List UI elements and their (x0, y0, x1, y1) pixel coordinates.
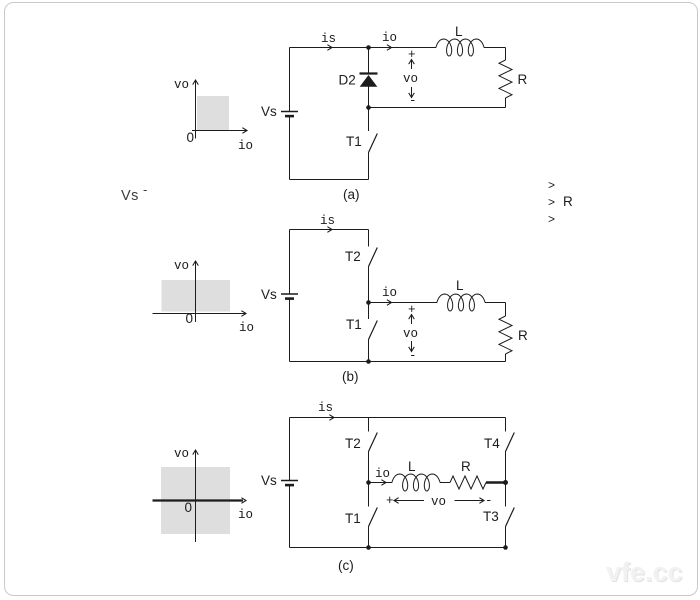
wire left rail lower b (289, 299, 291, 362)
svg-text:T4: T4 (484, 436, 500, 451)
wire bottom rail a (290, 179, 369, 181)
svg-text:io: io (238, 139, 253, 153)
wire top rail a (290, 47, 437, 49)
arrow vo up (b) (411, 315, 413, 325)
diode D2 (360, 74, 378, 87)
wire T2c top stub (368, 418, 370, 432)
wire output bottom (369, 107, 506, 109)
switch T1 (c) (369, 508, 378, 527)
io axis (192, 130, 247, 132)
arrow io (a) (387, 45, 392, 51)
svg-text:vo: vo (174, 78, 189, 92)
wire left rail upper (289, 48, 291, 112)
svg-text:is: is (321, 32, 336, 46)
resistor R (a) (499, 60, 512, 98)
wire T1c bottom stub (368, 527, 370, 548)
svg-text:is: is (320, 214, 335, 228)
svg-text:(c): (c) (338, 558, 354, 573)
wire left rail upper b (289, 230, 291, 295)
node junction c2 (503, 480, 508, 485)
svg-text:R: R (461, 459, 471, 474)
wire T3 top stub (505, 483, 507, 507)
wire T1b bottom stub (368, 340, 370, 362)
svg-text:>: > (548, 178, 555, 192)
wire T2c bottom stub (368, 452, 370, 483)
switch T1 (a) (369, 134, 378, 153)
wire resistor to right node c (thick) (486, 481, 506, 483)
svg-text:io: io (239, 321, 254, 335)
svg-text:R: R (563, 194, 573, 209)
svg-text:0: 0 (186, 311, 194, 326)
svg-text:D2: D2 (339, 73, 356, 88)
svg-text:T2: T2 (345, 436, 361, 451)
wire left rail lower (289, 116, 291, 180)
battery Vs (b) (281, 294, 298, 299)
switch T4 (506, 433, 515, 452)
wire T2b bottom stub (368, 267, 370, 303)
svg-text:L: L (456, 278, 464, 293)
svg-text:R: R (518, 328, 528, 343)
arrow io (c) (381, 480, 386, 486)
battery Vs (a) (281, 112, 298, 117)
wire top rail b (290, 229, 369, 231)
io axis (thick) (153, 499, 244, 501)
svg-text:vo: vo (174, 447, 189, 461)
wire T2b top stub (368, 230, 370, 247)
wire diode bottom stub (368, 87, 370, 108)
svg-text:-: - (409, 94, 417, 108)
node junction c1 (366, 480, 371, 485)
stray chevrons and R fragment (548, 178, 573, 226)
svg-text:+: + (386, 494, 394, 508)
svg-text:is: is (318, 401, 333, 415)
wire left rail lower c (289, 485, 291, 548)
switch T3 (506, 508, 515, 527)
wire T1b top stub (368, 303, 370, 320)
four quadrant shaded region (161, 467, 230, 534)
svg-text:vfe.cc: vfe.cc (606, 557, 683, 587)
wire T4 bottom stub (505, 452, 507, 483)
arrow vo left (c) (394, 500, 424, 502)
svg-text:R: R (518, 72, 528, 87)
svg-text:io: io (382, 286, 397, 300)
svg-text:io: io (382, 31, 397, 45)
svg-text:vo: vo (403, 72, 418, 86)
wire T4 top stub (505, 418, 507, 432)
node junction b2 (366, 359, 371, 364)
resistor R (b) (499, 316, 512, 354)
svg-text:vo: vo (431, 495, 446, 509)
wire bottom rail b (290, 361, 506, 363)
svg-text:(a): (a) (343, 187, 360, 202)
svg-text:>: > (548, 212, 555, 226)
wire right leg upper (505, 48, 507, 61)
wire left rail upper c (289, 418, 291, 481)
svg-text:io: io (375, 467, 390, 481)
inductor L (c) (392, 474, 440, 491)
svg-text:-: - (485, 494, 493, 508)
vo axis (195, 80, 197, 139)
io axis (153, 313, 247, 315)
vo axis (195, 450, 197, 542)
node junction c3 (366, 545, 371, 550)
wire T1a bottom stub (368, 153, 370, 180)
arrow vo up (a) (411, 60, 413, 70)
switch T1 (b) (369, 321, 378, 340)
wire bottom rail c (290, 547, 506, 549)
node junction c4 (503, 545, 508, 550)
node junction a2 (366, 105, 371, 110)
arrow vo down (a) (411, 87, 413, 98)
svg-text:L: L (455, 24, 463, 39)
wire right leg upper b (505, 303, 507, 317)
vo axis (195, 261, 197, 322)
battery Vs (c) (281, 481, 298, 486)
wire inductor to corner (484, 47, 506, 49)
svg-text:Vs: Vs (121, 188, 139, 204)
wire inductor to corner b (485, 302, 506, 304)
arrow is (c) (329, 415, 334, 421)
arrow is (b) (327, 227, 332, 233)
upper half shaded region (162, 280, 231, 312)
resistor R (c) (450, 476, 486, 489)
wire right leg lower (505, 98, 507, 108)
wire node to inductor c (369, 482, 393, 484)
svg-text:io: io (238, 508, 253, 522)
svg-text:(b): (b) (342, 369, 359, 384)
svg-text:-: - (143, 182, 147, 197)
svg-text:T1: T1 (346, 134, 362, 149)
switch T2 (b) (369, 248, 378, 267)
svg-text:T1: T1 (346, 317, 362, 332)
inductor L (b) (437, 294, 485, 311)
arrow io (b) (387, 300, 392, 306)
wire inductor to resistor c (440, 482, 450, 484)
wire diode top stub (368, 48, 370, 74)
svg-text:vo: vo (174, 259, 189, 273)
wire top rail c (290, 417, 506, 419)
wire node to inductor b (369, 302, 438, 304)
svg-text:L: L (408, 459, 416, 474)
switch T2 (c) (369, 433, 378, 452)
svg-text:0: 0 (187, 130, 195, 145)
svg-text:T3: T3 (483, 509, 499, 524)
arrow is (a) (327, 45, 332, 51)
svg-text:Vs: Vs (261, 104, 277, 119)
svg-text:T2: T2 (345, 249, 361, 264)
svg-text:T1: T1 (345, 511, 361, 526)
svg-text:>: > (548, 195, 555, 209)
quadrant I shaded region (197, 96, 229, 131)
wire T1a top stub (368, 108, 370, 132)
svg-text:vo: vo (403, 327, 418, 341)
svg-text:Vs: Vs (261, 287, 277, 302)
svg-text:-: - (409, 349, 417, 363)
label Vs- caption (121, 182, 147, 204)
svg-text:0: 0 (185, 500, 193, 515)
inductor L (a) (436, 39, 484, 56)
arrow vo right (c) (455, 500, 485, 502)
wire T3 bottom stub (505, 527, 507, 548)
node junction a1 (366, 45, 371, 50)
wire right leg lower b (505, 354, 507, 362)
node junction b1 (366, 300, 371, 305)
arrow vo down (b) (411, 341, 413, 352)
svg-text:Vs: Vs (261, 473, 277, 488)
wire T1c top stub (368, 483, 370, 507)
